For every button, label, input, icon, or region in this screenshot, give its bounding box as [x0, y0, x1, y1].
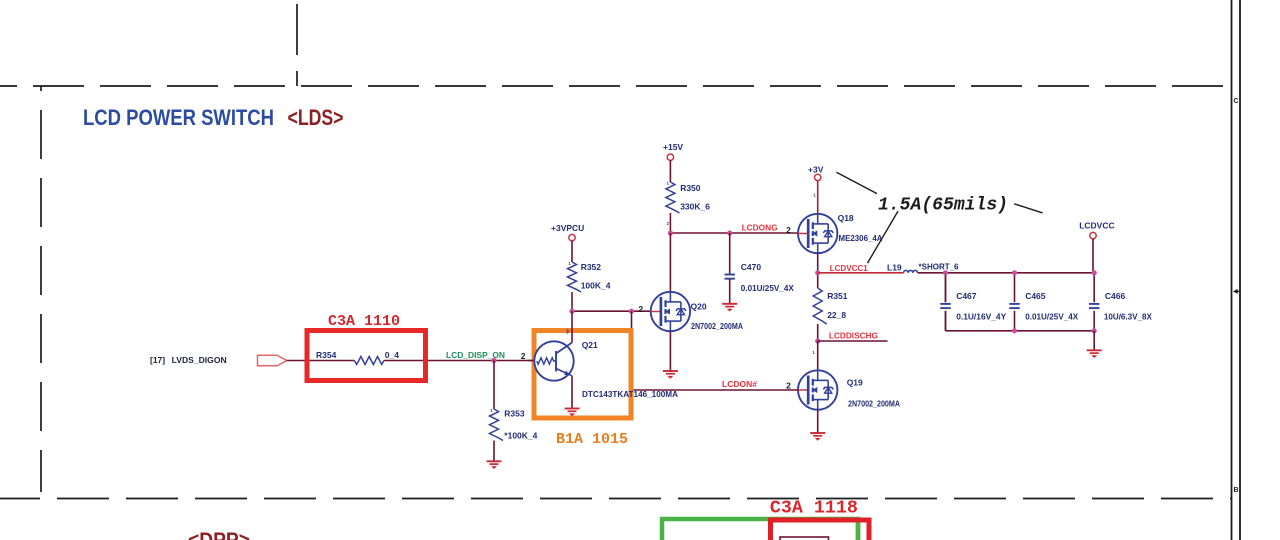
svg-text:C467: C467: [956, 291, 977, 301]
svg-text:*SHORT_6: *SHORT_6: [919, 262, 959, 272]
svg-text:LCDVCC1: LCDVCC1: [830, 263, 868, 273]
svg-text:R353: R353: [504, 408, 525, 418]
svg-text:22_8: 22_8: [827, 310, 846, 320]
svg-text:C466: C466: [1105, 291, 1126, 301]
svg-text:<LDS>: <LDS>: [288, 105, 344, 130]
svg-text:3: 3: [566, 330, 569, 336]
svg-text:0.1U/16V_4Y: 0.1U/16V_4Y: [956, 312, 1006, 322]
svg-text:2: 2: [667, 221, 670, 226]
svg-text:R351: R351: [827, 291, 848, 301]
svg-text:<DPP>: <DPP>: [188, 529, 250, 540]
svg-text:LCDVCC: LCDVCC: [1079, 221, 1114, 231]
svg-text:*100K_4: *100K_4: [504, 431, 537, 441]
svg-text:0.01U/25V_4X: 0.01U/25V_4X: [741, 283, 794, 293]
svg-text:1: 1: [812, 350, 815, 355]
svg-text:Q19: Q19: [847, 378, 863, 388]
svg-text:1: 1: [667, 181, 670, 186]
svg-text:LCD_DISP_ON: LCD_DISP_ON: [446, 350, 505, 360]
svg-text:2: 2: [786, 225, 791, 235]
svg-text:1: 1: [490, 408, 493, 413]
svg-text:330K_6: 330K_6: [680, 202, 710, 212]
svg-text:2: 2: [638, 304, 643, 314]
svg-text:C3A 1118: C3A 1118: [770, 499, 858, 519]
svg-text:2: 2: [786, 381, 791, 391]
svg-text:[17]: [17]: [150, 355, 165, 365]
svg-text:C465: C465: [1025, 291, 1046, 301]
svg-text:Q18: Q18: [838, 213, 854, 223]
svg-text:L19: L19: [887, 263, 902, 273]
svg-text:C: C: [1234, 98, 1239, 105]
svg-text:ME2306_4A: ME2306_4A: [839, 233, 883, 243]
svg-text:2N7002_200MA: 2N7002_200MA: [848, 399, 900, 409]
svg-text:LCDON#: LCDON#: [722, 379, 757, 389]
svg-text:C3A 1110: C3A 1110: [328, 313, 400, 330]
svg-text:R350: R350: [680, 183, 701, 193]
svg-text:LVDS_DIGON: LVDS_DIGON: [172, 355, 227, 365]
svg-text:+3V: +3V: [808, 164, 824, 174]
svg-text:C470: C470: [741, 262, 762, 272]
svg-text:B1A 1015: B1A 1015: [556, 431, 628, 448]
svg-text:R352: R352: [581, 262, 602, 272]
svg-text:+15V: +15V: [663, 142, 683, 152]
svg-text:B: B: [1234, 487, 1239, 494]
svg-text:100K_4: 100K_4: [581, 281, 611, 291]
svg-text:LCD POWER SWITCH: LCD POWER SWITCH: [83, 105, 274, 130]
svg-text:0.01U/25V_4X: 0.01U/25V_4X: [1025, 312, 1078, 322]
svg-text:1: 1: [813, 193, 816, 198]
svg-text:+3VPCU: +3VPCU: [551, 223, 584, 233]
svg-text:Q21: Q21: [582, 340, 598, 350]
svg-text:LCDONG: LCDONG: [742, 223, 778, 233]
svg-text:R354: R354: [316, 350, 337, 360]
svg-text:2N7002_200MA: 2N7002_200MA: [691, 321, 743, 331]
svg-text:10U/6.3V_8X: 10U/6.3V_8X: [1104, 312, 1152, 322]
svg-text:0_4: 0_4: [385, 350, 399, 360]
svg-text:1: 1: [568, 261, 571, 266]
svg-text:2: 2: [521, 351, 526, 361]
svg-text:Q20: Q20: [691, 302, 707, 312]
svg-text:LCDDISCHG: LCDDISCHG: [829, 331, 878, 341]
